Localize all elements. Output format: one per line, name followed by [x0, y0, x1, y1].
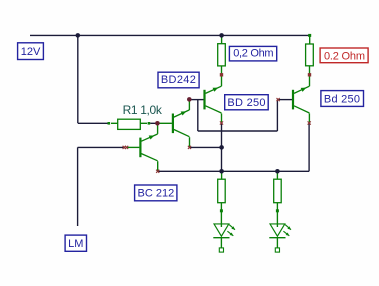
svg-text:BC 212: BC 212: [138, 188, 175, 200]
svg-text:R1 1,0k: R1 1,0k: [123, 103, 163, 117]
svg-text:BD242: BD242: [161, 74, 196, 86]
svg-text:0.2 Ohm: 0.2 Ohm: [324, 50, 365, 62]
svg-text:0,2 Ohm: 0,2 Ohm: [233, 48, 273, 60]
svg-text:12V: 12V: [21, 46, 41, 58]
svg-text:BD 250: BD 250: [227, 97, 265, 109]
svg-text:Bd 250: Bd 250: [324, 93, 360, 105]
svg-text:LM: LM: [68, 238, 83, 250]
